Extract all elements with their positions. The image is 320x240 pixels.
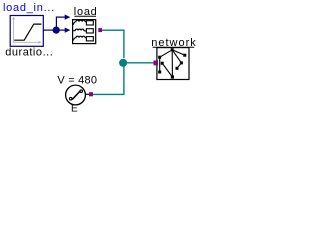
- network block: [157, 48, 189, 80]
- node teal junction: [119, 59, 127, 67]
- ramp icon x-axis: [13, 41, 39, 43]
- edge top node to right upper node: [172, 50, 185, 55]
- svg-text:E: E: [71, 103, 78, 114]
- wire load to junction: [102, 30, 124, 58]
- node mid: [176, 67, 179, 70]
- coil row 3: [73, 36, 86, 40]
- pin load terminal (purple connector): [98, 28, 102, 32]
- ramp curve: [14, 24, 41, 40]
- ramp icon y-axis: [13, 19, 15, 43]
- edge top node to left node: [160, 50, 173, 57]
- wire source stub to terminal: [85, 93, 89, 95]
- svg-text:V = 480: V = 480: [57, 75, 97, 87]
- ramp source block load_incr: [10, 16, 43, 47]
- edge left node to left lower node: [159, 57, 161, 72]
- pin source terminal (purple connector): [89, 92, 93, 96]
- node top: [171, 48, 174, 51]
- svg-text:load_in...: load_in...: [3, 2, 54, 14]
- sine glyph inside source: [72, 91, 80, 100]
- arrowhead into load input 2: [65, 28, 71, 33]
- node left upper: [158, 56, 161, 59]
- edge top node to bottom node: [171, 50, 173, 77]
- edge top node to right mid node: [172, 50, 181, 63]
- node left lower: [158, 71, 161, 74]
- wire junction to network: [123, 62, 154, 64]
- svg-text:duratio...: duratio...: [5, 47, 53, 59]
- edge right mid node to mid node: [177, 63, 181, 68]
- wire ramp output to junction: [43, 29, 56, 31]
- node right upper: [183, 54, 186, 57]
- node blue junction: [53, 27, 60, 34]
- coil row 2: [73, 29, 86, 31]
- edge node3 to bottom node: [162, 63, 172, 77]
- pin network terminal (purple connector): [154, 61, 159, 66]
- wire junction up to load input 1: [56, 17, 65, 30]
- load block: [73, 20, 96, 44]
- node right mid: [180, 61, 183, 64]
- voltage source E: [66, 85, 90, 105]
- coil row 1: [73, 20, 86, 25]
- arrowhead into load input 1: [65, 15, 71, 20]
- wire junction to load input 2: [56, 29, 65, 31]
- node bottom center: [171, 75, 174, 78]
- node 3: [161, 62, 164, 65]
- wire junction down to voltage source: [93, 63, 124, 95]
